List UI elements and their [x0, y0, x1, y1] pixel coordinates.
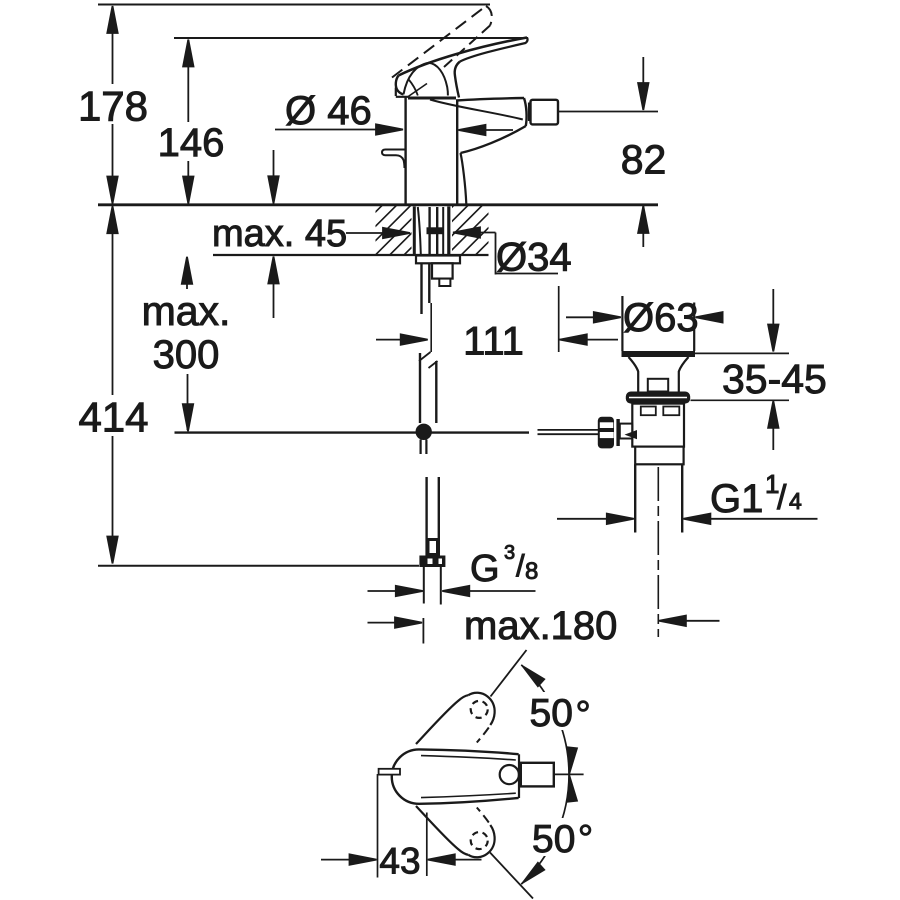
deck bottom line: [213, 254, 489, 256]
flexible hose thin line: [430, 303, 432, 352]
top reference line (handle open tip level): [98, 4, 490, 6]
plan view body: [392, 749, 519, 803]
pop-up seat band: [626, 392, 690, 404]
dimension max 45 vertical arrows: [268, 150, 278, 318]
svg-text:3: 3: [504, 542, 515, 564]
svg-text:max.180: max.180: [464, 604, 617, 648]
reference line (handle closed tip level): [174, 37, 528, 39]
dimension 43: [321, 774, 482, 878]
deck top line: [98, 203, 658, 206]
svg-text:43: 43: [379, 841, 420, 882]
svg-text:max.: max.: [142, 288, 231, 334]
dimension diameter 46: [275, 124, 513, 135]
dimension max 180: [368, 616, 720, 628]
svg-text:50: 50: [532, 818, 575, 861]
plan handle rect: [521, 763, 554, 787]
svg-text:/: /: [777, 479, 787, 517]
label 50 lower: [526, 818, 596, 861]
pop-up centerline dashed: [657, 467, 659, 637]
dimension 178: [107, 6, 117, 204]
faucet body column: [396, 88, 457, 205]
G3/8 connector: [425, 538, 440, 556]
G3/8 pipe: [427, 477, 439, 538]
swing ray upper: [491, 650, 527, 697]
pop-up valve body: [632, 404, 684, 447]
label 50 upper: [524, 692, 596, 735]
extension line below pipe: [422, 618, 424, 644]
supply base reference line: [98, 565, 419, 567]
svg-text:50: 50: [530, 692, 573, 735]
svg-text:8: 8: [525, 558, 538, 585]
rod adjuster knob: [598, 417, 614, 449]
svg-text:146: 146: [158, 121, 225, 165]
svg-text:35-45: 35-45: [722, 356, 827, 402]
supply pipe upper stub: [422, 263, 430, 314]
pop-up rod horizontal: [175, 431, 530, 433]
mounting flange under deck: [416, 256, 460, 264]
faucet handle lever: [396, 38, 528, 98]
pipe below nut: [424, 567, 441, 605]
dimension G1 1/4: [557, 514, 818, 524]
dimension G 3/8: [368, 586, 536, 596]
svg-text:G: G: [470, 548, 500, 590]
svg-text:414: 414: [78, 394, 148, 441]
shank in deck hole: [414, 207, 449, 256]
svg-text:G1: G1: [710, 477, 763, 521]
label diameter 34 with leader: [453, 227, 558, 274]
pop-up waste upper cylinder: [622, 296, 694, 351]
plan handle arm lower: [416, 806, 495, 857]
swing arc lower: [521, 775, 569, 885]
pop-up taper neck: [629, 357, 689, 392]
plan handle arm upper: [416, 693, 495, 744]
dimension 111: [376, 286, 618, 352]
svg-text:max. 45: max. 45: [212, 213, 347, 255]
rod clamp connector: [620, 424, 632, 439]
dimension max 300: [182, 257, 193, 431]
svg-text:111: 111: [463, 320, 524, 364]
label max 45 with leader: [346, 228, 410, 238]
svg-text:178: 178: [78, 82, 148, 129]
pivot junction dot: [416, 424, 432, 440]
dimension 35-45: [691, 289, 790, 450]
G3/8 nut: [419, 556, 445, 568]
dimension 82: [638, 57, 648, 247]
aerator reference line: [559, 111, 659, 113]
plan axis line: [554, 773, 584, 775]
pipe below pivot: [421, 440, 427, 455]
dimension 146: [183, 40, 193, 204]
temperature limiter tab: [382, 150, 406, 169]
svg-text:82: 82: [621, 137, 667, 183]
dimension diameter 63: [566, 312, 723, 322]
pop-up flange band: [622, 351, 696, 357]
plan supply stub: [379, 769, 400, 775]
svg-text:/: /: [516, 548, 525, 583]
svg-text:300: 300: [153, 333, 220, 377]
mounting nut: [432, 263, 453, 278]
supply pipe lower stub: [419, 352, 438, 423]
swing ray lower: [490, 853, 533, 899]
pop-up collar: [635, 447, 683, 465]
aerator block: [531, 100, 559, 125]
spout: [430, 98, 529, 204]
deck hatching: [332, 206, 539, 256]
handle open position dashed: [392, 6, 492, 78]
svg-text:Ø34: Ø34: [496, 236, 572, 280]
svg-text:Ø 46: Ø 46: [285, 89, 372, 133]
dimension 414: [107, 206, 117, 563]
svg-text:Ø63: Ø63: [623, 296, 699, 340]
pop-up tail pipe: [635, 464, 682, 532]
plan aerator circle: [500, 765, 519, 784]
overflow window: [648, 379, 668, 392]
svg-text:4: 4: [789, 488, 802, 514]
swing arc upper: [521, 665, 569, 775]
